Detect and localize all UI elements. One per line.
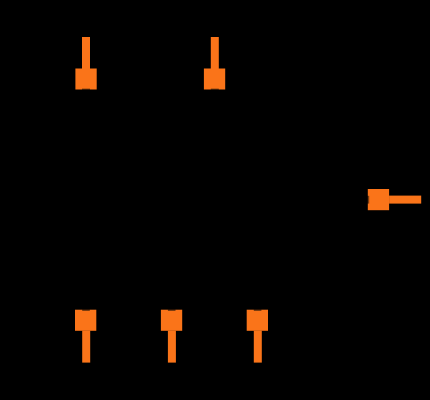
symbol body edge mark: bottom-left corner bbox=[0, 372, 5, 400]
pin 2 (top-right, upward): stem + pad + connection stub bbox=[204, 37, 225, 91]
pin 6 (bottom-right, downward): pad + stem + connection stub bbox=[247, 308, 268, 362]
symbol body edge mark: right edge bbox=[426, 148, 430, 252]
symbol body edge mark: top-left corner bbox=[0, 0, 28, 28]
pin 3 (right side, rightward): pad + stem + connection stub bbox=[366, 189, 421, 210]
pin 5 (bottom-middle, downward): pad + stem + connection stub bbox=[161, 308, 182, 362]
pin 1 (top-left, upward): stem + pad + connection stub bbox=[75, 37, 96, 91]
symbol body edge mark: bottom edge bbox=[0, 396, 331, 400]
pin 4 (bottom-left, downward): pad + stem + connection stub bbox=[75, 308, 96, 362]
